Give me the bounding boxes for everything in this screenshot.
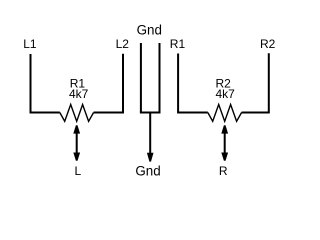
svg-text:L: L xyxy=(75,164,82,178)
svg-text:4k7: 4k7 xyxy=(216,87,236,101)
svg-text:R1: R1 xyxy=(170,37,186,51)
wire L1 lead xyxy=(31,54,60,113)
svg-text:L2: L2 xyxy=(116,37,130,51)
wiper arrow R2 xyxy=(221,125,228,161)
svg-text:R: R xyxy=(219,164,228,178)
svg-text:4k7: 4k7 xyxy=(69,87,89,101)
svg-text:Gnd: Gnd xyxy=(135,163,160,178)
wiper arrow R1 xyxy=(73,125,80,161)
svg-text:R2: R2 xyxy=(260,37,276,51)
arrow Gnd xyxy=(147,153,154,162)
potentiometer R1 zigzag xyxy=(60,105,94,122)
wire Gnd left xyxy=(140,43,142,113)
wire R2 lead xyxy=(242,53,269,112)
wire R1 lead xyxy=(178,54,208,113)
svg-text:Gnd: Gnd xyxy=(137,23,162,38)
potentiometer R2 zigzag xyxy=(208,105,242,122)
svg-text:L1: L1 xyxy=(23,37,37,51)
wire Gnd stem xyxy=(149,113,151,155)
wire Gnd junction bar xyxy=(140,112,161,114)
wire Gnd right xyxy=(159,43,161,113)
wire L2 lead xyxy=(94,54,123,113)
